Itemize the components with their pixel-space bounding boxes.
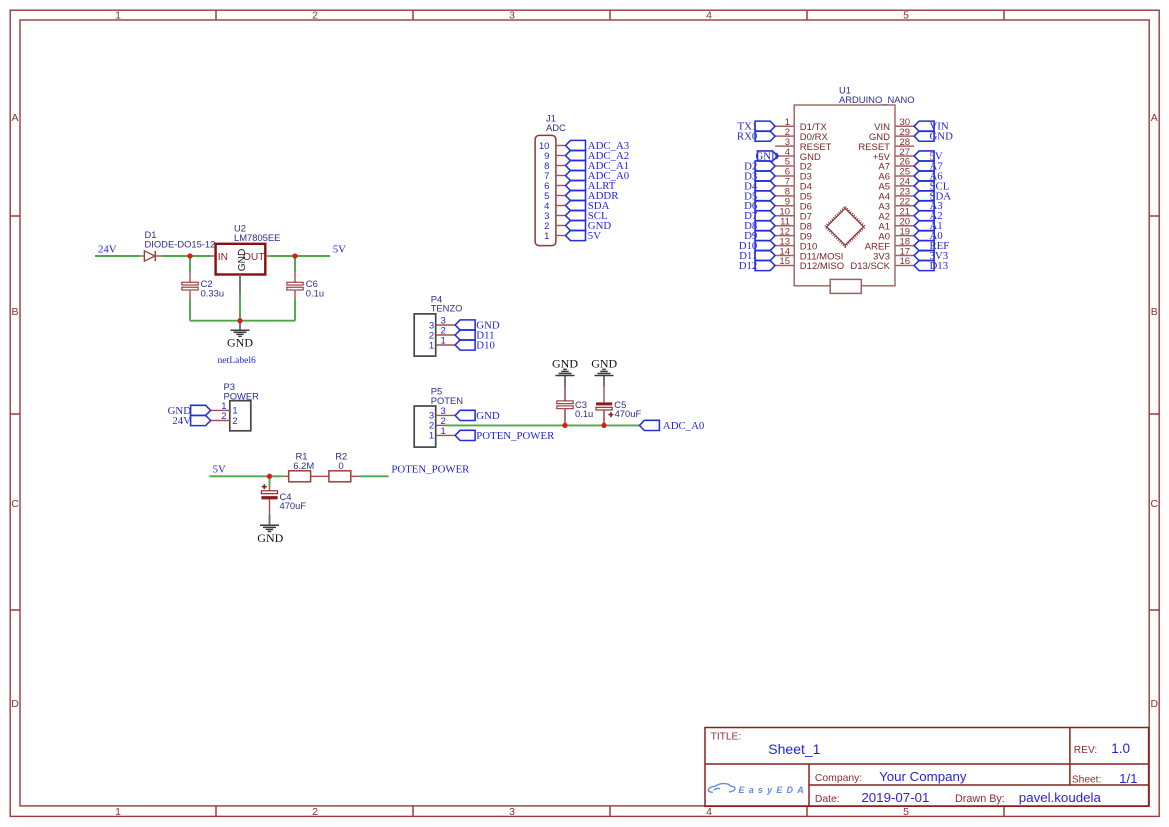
wire 24V input [95, 255, 140, 257]
pin stub C5 bottom [603, 410, 605, 425]
pin stub U2 IN [211, 255, 216, 257]
pin stub U2 GND [239, 275, 241, 294]
wire C6 to ground rail [294, 299, 296, 321]
net flag ADC_A0 [566, 170, 586, 180]
svg-text:1: 1 [429, 340, 434, 351]
net flag GND pin4 [758, 151, 778, 161]
net flag D13 pin 16 [914, 260, 934, 270]
svg-text:LM7805EE: LM7805EE [234, 232, 280, 243]
net flag A3 pin 22 [914, 201, 934, 211]
svg-text:1: 1 [441, 426, 446, 437]
wire C6 branch upper [294, 256, 296, 272]
svg-text:POTEN_POWER: POTEN_POWER [391, 463, 470, 475]
svg-text:D: D [1151, 698, 1159, 710]
U1 pin 17 stub [895, 255, 914, 257]
U1 pin 8 stub [775, 195, 794, 197]
U1 pin 10 stub [775, 215, 794, 217]
P5 pin 1 stub [436, 434, 455, 436]
pin stub C6 bottom [294, 290, 296, 299]
U1 pin 18 stub [895, 245, 914, 247]
J1 pin 8 stub [556, 165, 566, 167]
svg-text:IN: IN [218, 252, 228, 263]
svg-text:6.2M: 6.2M [293, 460, 314, 471]
ground symbol C3 inverted [564, 376, 566, 387]
svg-text:0.33u: 0.33u [201, 288, 224, 299]
net flag 24V [191, 415, 211, 425]
capacitor C4 polarized [261, 484, 277, 499]
frame row letters right [1151, 112, 1159, 710]
svg-text:1: 1 [544, 231, 549, 242]
EasyEDA logo [708, 784, 808, 795]
svg-text:1: 1 [429, 431, 434, 442]
U1 pin 15 stub [775, 265, 794, 267]
svg-text:DIODE-DO15-12: DIODE-DO15-12 [145, 239, 216, 250]
J1 pin 6 stub [556, 185, 566, 187]
U1 pin 9 stub [775, 205, 794, 207]
svg-text:A: A [11, 112, 18, 124]
net flag SDA [566, 200, 586, 210]
P3 pin 1 stub [211, 409, 230, 411]
svg-text:D: D [11, 698, 19, 710]
capacitor C2 [182, 282, 198, 285]
svg-text:pavel.koudela: pavel.koudela [1019, 790, 1102, 805]
frame row letters left [11, 112, 19, 710]
svg-text:1: 1 [115, 9, 121, 21]
microcontroller U1 ARDUINO_NANO body [794, 105, 895, 286]
pin stub C3 bottom [564, 408, 566, 425]
svg-text:0.1u: 0.1u [575, 408, 593, 419]
svg-text:470uF: 470uF [615, 408, 642, 419]
svg-text:EasyEDA: EasyEDA [739, 785, 808, 795]
P4 pin 1 stub [436, 344, 455, 346]
U1 pin 27 stub [895, 155, 914, 157]
svg-text:GND: GND [930, 131, 954, 143]
svg-text:C: C [1151, 498, 1159, 510]
svg-text:Date:: Date: [815, 794, 840, 805]
U1 pin 22 stub [895, 205, 914, 207]
svg-text:24V: 24V [172, 415, 191, 427]
net flag D10 [455, 340, 475, 350]
J1 pin 7 stub [556, 175, 566, 177]
U1 pin 21 stub [895, 215, 914, 217]
J1 pin 4 stub [556, 205, 566, 207]
junction C5 [601, 423, 606, 428]
J1 pin 5 stub [556, 195, 566, 197]
pin stub R2 right [351, 475, 360, 477]
resistor R2 [329, 471, 351, 482]
wire 5V to junction [209, 475, 283, 477]
J1 pin 1 stub [556, 235, 566, 237]
frame column numbers bottom [115, 806, 909, 818]
diode D1 [140, 251, 162, 261]
net flag TX1 [755, 121, 775, 131]
net flag A0 pin 19 [914, 231, 934, 241]
wire C2 branch upper [189, 256, 191, 272]
svg-text:D13/SCK: D13/SCK [850, 261, 890, 272]
U1 pin 3 stub [775, 145, 794, 147]
svg-text:B: B [1151, 306, 1158, 318]
wire R2 to POTEN_POWER [360, 475, 389, 477]
wire C4 top [269, 476, 271, 487]
svg-text:470uF: 470uF [280, 500, 307, 511]
connector P3 POWER body [230, 401, 251, 431]
U1 pin 13 stub [775, 245, 794, 247]
U1 pin 5 stub [775, 165, 794, 167]
capacitor C3 [557, 401, 573, 404]
net flag D4 [755, 181, 775, 191]
net flag A7 pin 26 [914, 161, 934, 171]
pin stub U2 OUT [265, 255, 270, 257]
svg-text:ADC: ADC [546, 122, 566, 133]
U1 pin 25 stub [895, 175, 914, 177]
U1 pin 7 stub [775, 185, 794, 187]
frame column numbers top [115, 9, 909, 21]
svg-text:2019-07-01: 2019-07-01 [861, 790, 929, 805]
svg-text:4: 4 [706, 9, 712, 21]
svg-text:5V: 5V [333, 244, 346, 256]
U1 pin 16 stub [895, 265, 914, 267]
svg-text:RX0: RX0 [737, 131, 757, 143]
svg-text:1.0: 1.0 [1111, 741, 1130, 756]
svg-text:1: 1 [115, 806, 121, 818]
U1 pin 24 stub [895, 185, 914, 187]
pin stub R1 left [283, 475, 288, 477]
svg-text:B: B [11, 306, 18, 318]
net flag A2 pin 21 [914, 211, 934, 221]
net flag D12 [755, 260, 775, 270]
svg-text:GND: GND [227, 335, 253, 349]
svg-text:3: 3 [509, 806, 515, 818]
net flag 5V pin 27 [914, 151, 934, 161]
svg-text:5V: 5V [213, 463, 226, 475]
net flag GND pin 29 [914, 131, 934, 141]
ground symbol C5 inverted [603, 376, 605, 387]
net flag REF pin 18 [914, 241, 934, 251]
pin stub C4 top [269, 487, 271, 491]
svg-text:1/1: 1/1 [1119, 771, 1138, 786]
net flag D9 [755, 231, 775, 241]
U1 pin 1 stub [775, 125, 794, 127]
net flag D5 [755, 191, 775, 201]
ground symbol regulator [239, 321, 241, 331]
pin stub C6 top [294, 272, 296, 282]
USB connector rectangle [830, 279, 861, 293]
svg-text:2: 2 [312, 9, 318, 21]
J1 pin 2 stub [556, 225, 566, 227]
wire U2 GND down [239, 293, 241, 321]
pin stub C4 bottom [269, 499, 271, 515]
U1 pin 28 stub [895, 145, 914, 147]
IC diamond symbol [825, 207, 865, 247]
net flag 3V3 pin 17 [914, 250, 934, 260]
U1 pin 29 stub [895, 135, 914, 137]
svg-text:Sheet_1: Sheet_1 [768, 741, 820, 757]
svg-text:D12/MISO: D12/MISO [800, 261, 844, 272]
net flag D10 [755, 241, 775, 251]
svg-text:24V: 24V [98, 244, 117, 256]
P4 pin 3 stub [436, 324, 455, 326]
J1 pin 10 stub [556, 145, 566, 147]
net flag GND [455, 320, 475, 330]
connector P4 TENZO body [414, 314, 436, 356]
U1 pin 26 stub [895, 165, 914, 167]
svg-text:netLabel6: netLabel6 [218, 355, 257, 366]
svg-text:0: 0 [339, 460, 344, 471]
pin stub C2 top [189, 272, 191, 282]
svg-text:Company:: Company: [815, 773, 862, 784]
J1 pin 9 stub [556, 155, 566, 157]
U1 pin 20 stub [895, 225, 914, 227]
svg-text:REV:: REV: [1074, 745, 1097, 756]
P3 pin 2 stub [211, 420, 230, 422]
svg-text:ARDUINO_NANO: ARDUINO_NANO [839, 94, 915, 105]
wire P5 to ADC_A0 [446, 424, 640, 426]
pin stub C2 bottom [189, 290, 191, 299]
U1 pin 6 stub [775, 175, 794, 177]
net flag D3 [755, 171, 775, 181]
J1 pin 3 stub [556, 215, 566, 217]
U1 pin 19 stub [895, 235, 914, 237]
junction at C2 top [187, 253, 192, 258]
ground symbol C4 [269, 515, 271, 525]
svg-text:4: 4 [706, 806, 712, 818]
svg-text:3: 3 [509, 9, 515, 21]
svg-text:D13: D13 [930, 260, 949, 272]
svg-text:TENZO: TENZO [431, 303, 463, 314]
connector J1 ADC body [535, 135, 556, 245]
net flag ADC_A0 [639, 420, 659, 430]
junction C3 [562, 423, 567, 428]
net flag SCL pin 24 [914, 181, 934, 191]
svg-text:TITLE:: TITLE: [711, 731, 742, 742]
resistor R1 [289, 471, 311, 482]
svg-text:15: 15 [779, 256, 790, 267]
wire C2 to ground rail [189, 299, 191, 321]
net flag A1 pin 20 [914, 221, 934, 231]
net flag 5V [566, 230, 586, 240]
U1 pin 14 stub [775, 255, 794, 257]
pin stub C3 top [564, 386, 566, 401]
net flag GND [455, 410, 475, 420]
net flag D8 [755, 221, 775, 231]
svg-text:POWER: POWER [224, 390, 260, 401]
svg-text:Sheet:: Sheet: [1072, 775, 1101, 786]
junction C4 [267, 474, 272, 479]
P5 pin 3 stub [436, 414, 455, 416]
U1 pin 2 stub [775, 135, 794, 137]
net flag SDA pin 23 [914, 191, 934, 201]
svg-text:POTEN_POWER: POTEN_POWER [476, 430, 555, 442]
svg-text:5: 5 [903, 9, 909, 21]
net flag D11 [755, 250, 775, 260]
wire D1 to U2 IN [162, 255, 211, 257]
net flag D11 [455, 330, 475, 340]
net flag VIN pin 30 [914, 121, 934, 131]
net flag SCL [566, 210, 586, 220]
ground rail wire [190, 320, 295, 322]
net flag ALRT [566, 180, 586, 190]
capacitor C6 [287, 282, 303, 285]
net flag D7 [755, 211, 775, 221]
connector P5 POTEN body [414, 406, 436, 447]
wire R1 to R2 [311, 475, 329, 477]
svg-text:GND: GND [591, 356, 617, 370]
net flag RX0 [755, 131, 775, 141]
net flag GND [566, 220, 586, 230]
U1 pin 30 stub [895, 125, 914, 127]
svg-text:GND: GND [237, 249, 248, 272]
svg-text:0.1u: 0.1u [306, 288, 324, 299]
voltage regulator U2 LM7805EE [216, 244, 266, 275]
svg-text:GND: GND [257, 531, 283, 545]
svg-text:2: 2 [312, 806, 318, 818]
U1 pin 23 stub [895, 195, 914, 197]
svg-text:16: 16 [900, 256, 911, 267]
svg-text:POTEN: POTEN [431, 395, 463, 406]
U1 pin 4 stub [775, 155, 794, 157]
svg-text:Drawn By:: Drawn By: [955, 793, 1005, 805]
svg-text:2: 2 [221, 411, 226, 422]
svg-text:5: 5 [903, 806, 909, 818]
wire U2 OUT to 5V [270, 255, 330, 257]
svg-text:ADC_A0: ADC_A0 [663, 420, 704, 432]
svg-text:D10: D10 [476, 339, 495, 351]
junction ground rail [237, 318, 242, 323]
svg-text:GND: GND [476, 410, 500, 422]
title block [705, 728, 1149, 807]
svg-text:GND: GND [552, 356, 578, 370]
capacitor C5 polarized [596, 402, 613, 417]
svg-text:5V: 5V [588, 230, 601, 242]
net flag GND [191, 405, 211, 415]
net flag ADC_A1 [566, 160, 586, 170]
net flag ADC_A3 [566, 140, 586, 150]
net flag ADDR [566, 190, 586, 200]
svg-text:2: 2 [232, 416, 237, 427]
U1 pin 12 stub [775, 235, 794, 237]
svg-text:1: 1 [441, 336, 446, 347]
junction at C6 top [292, 253, 297, 258]
P4 pin 2 stub [436, 334, 455, 336]
svg-text:A: A [1151, 112, 1158, 124]
net flag ADC_A2 [566, 150, 586, 160]
net flag A6 pin 25 [914, 171, 934, 181]
svg-text:C: C [11, 498, 19, 510]
pin stub C5 top [603, 386, 605, 402]
svg-text:D12: D12 [739, 260, 758, 272]
P5 pin 2 stub [436, 424, 446, 426]
net flag POTEN_POWER [455, 430, 475, 440]
net flag D6 [755, 201, 775, 211]
svg-text:Your Company: Your Company [879, 769, 967, 784]
U1 pin 11 stub [775, 225, 794, 227]
net flag D2 [755, 161, 775, 171]
